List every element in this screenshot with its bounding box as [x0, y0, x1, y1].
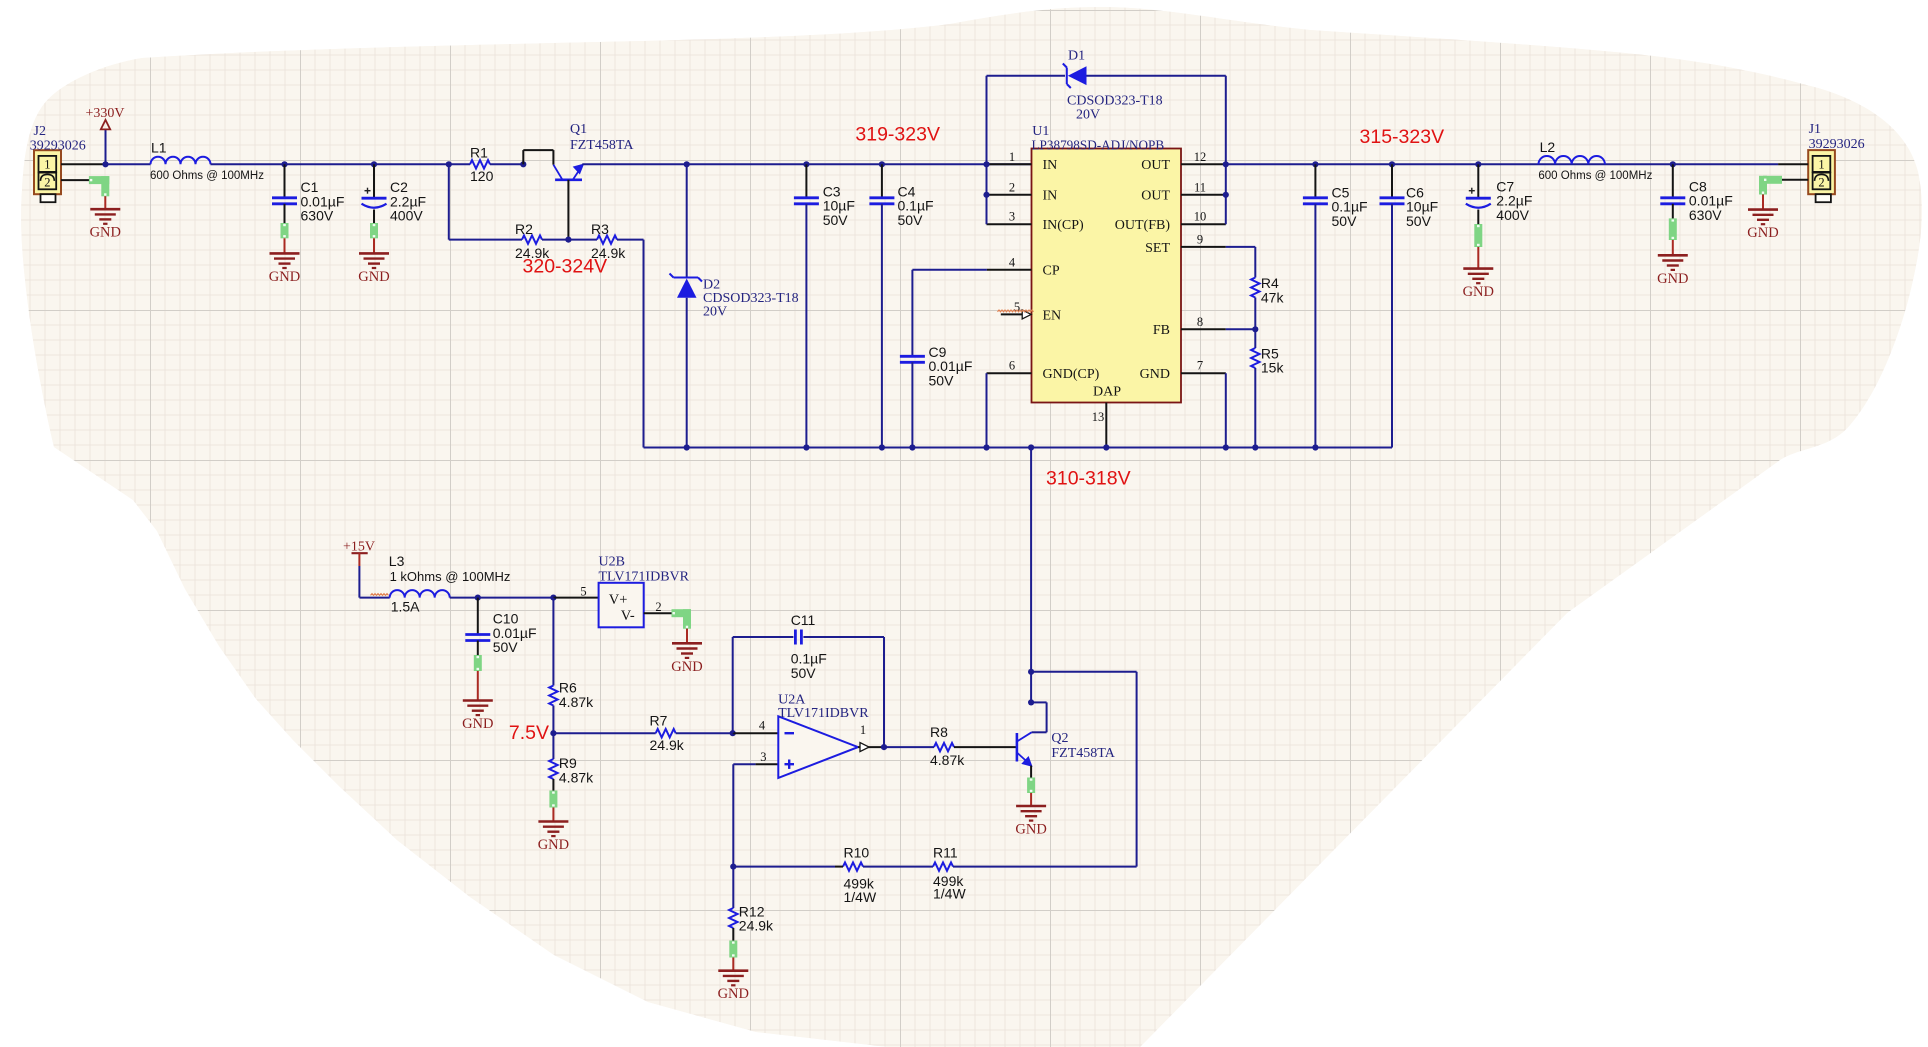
green highlight C2	[370, 223, 378, 238]
Q2 emitter wire	[1030, 766, 1032, 778]
svg-text:EN: EN	[1043, 308, 1062, 323]
svg-text:630V: 630V	[301, 208, 334, 224]
svg-text:15k: 15k	[1261, 360, 1285, 376]
svg-text:GND: GND	[671, 659, 702, 675]
ground symbol at U2B	[671, 643, 702, 675]
svg-text:1/4W: 1/4W	[933, 886, 966, 902]
junction Q2 collector	[1028, 699, 1034, 705]
svg-text:TLV171IDBVR: TLV171IDBVR	[778, 706, 869, 721]
green highlight C7	[1474, 224, 1482, 247]
svg-text:OUT: OUT	[1141, 189, 1170, 204]
inductor L2 600 Ohms @ 100MHz	[1538, 139, 1652, 182]
IC U1 LP38798SD-ADJ/NOPB	[1032, 124, 1182, 403]
U2A pin4 stub	[733, 732, 779, 734]
red stub U2B gnd	[686, 629, 688, 644]
wire rail Q1 emitter to U1	[582, 163, 1031, 165]
svg-text:LP38798SD-ADJ/NOPB: LP38798SD-ADJ/NOPB	[1032, 138, 1165, 153]
wire rail J2 to L1	[106, 163, 151, 165]
junction bus x=806.4	[803, 444, 809, 450]
resistor R8 4.87k	[930, 724, 965, 768]
svg-text:R9: R9	[559, 755, 577, 771]
svg-text:4: 4	[759, 719, 766, 733]
junction R6 col	[550, 595, 556, 601]
svg-text:V-: V-	[621, 608, 635, 624]
orange compile squiggle EN	[998, 310, 1034, 312]
U1 pin names	[1043, 158, 1171, 399]
svg-text:8: 8	[1197, 315, 1203, 329]
svg-text:FB: FB	[1153, 323, 1170, 338]
svg-text:20V: 20V	[1076, 107, 1100, 122]
svg-text:50V: 50V	[791, 665, 817, 681]
svg-text:GND(CP): GND(CP)	[1043, 367, 1100, 382]
junction bus x=1315.4	[1312, 444, 1318, 450]
transistor Q2 FZT458TA	[1017, 731, 1116, 766]
svg-text:R8: R8	[930, 724, 948, 740]
resistor R5 15k	[1254, 329, 1256, 348]
red stub R9	[552, 808, 554, 822]
svg-text:GND: GND	[462, 716, 493, 732]
svg-text:+15V: +15V	[343, 539, 375, 554]
wire rail L1 to R1	[211, 163, 471, 165]
op-amp power block U2B TLV171IDBVR	[580, 555, 689, 628]
connector J2 39293026	[30, 124, 86, 202]
resistor R3 24.9k	[591, 221, 626, 261]
red stub R12	[732, 958, 734, 971]
resistor R1 120	[470, 145, 494, 185]
svg-text:600 Ohms @ 100MHz: 600 Ohms @ 100MHz	[1538, 170, 1652, 182]
svg-text:J1: J1	[1809, 122, 1821, 137]
svg-text:3: 3	[760, 750, 766, 764]
wire bus down to Q2 node	[1030, 448, 1032, 703]
svg-text:47k: 47k	[1261, 289, 1285, 305]
svg-text:20V: 20V	[703, 305, 727, 320]
svg-text:10: 10	[1194, 210, 1207, 224]
wire R11 to right column	[953, 866, 1137, 868]
ground symbol at J1	[1747, 210, 1778, 242]
svg-text:GND: GND	[90, 225, 121, 241]
junction Q1 base / R2 / R3	[565, 237, 571, 243]
svg-text:Q2: Q2	[1051, 731, 1068, 746]
junction inverting input node	[730, 730, 736, 736]
svg-text:4.87k: 4.87k	[559, 694, 594, 710]
junction bus x=1225.8	[1223, 444, 1229, 450]
svg-text:R1: R1	[470, 145, 488, 161]
wire R3 to bus corner	[617, 239, 644, 241]
junction C1	[281, 161, 287, 167]
junction output node	[881, 744, 887, 750]
svg-text:320-324V: 320-324V	[523, 256, 608, 278]
wire step to Q1 collector	[522, 150, 524, 164]
svg-text:50V: 50V	[929, 372, 955, 388]
power port +15V	[343, 539, 375, 597]
svg-text:315-323V: 315-323V	[1360, 126, 1445, 148]
svg-text:GND: GND	[1657, 271, 1688, 287]
U1 EN pin stub with no-connect	[1001, 313, 1023, 315]
wire J2 pin1 to rail	[61, 163, 106, 165]
svg-text:600 Ohms @ 100MHz: 600 Ohms @ 100MHz	[150, 170, 264, 182]
U1 left pin stubs	[987, 163, 1032, 165]
junction bus x=686.7	[684, 444, 690, 450]
svg-text:24.9k: 24.9k	[650, 737, 685, 753]
wire R7 to inverting node	[676, 732, 733, 734]
ground symbol at Q2	[1015, 806, 1046, 838]
svg-text:39293026: 39293026	[1809, 137, 1865, 152]
svg-text:5: 5	[580, 585, 586, 599]
svg-text:2: 2	[655, 600, 661, 614]
orange compile squiggle L3	[371, 594, 389, 596]
svg-text:400V: 400V	[1496, 207, 1529, 223]
svg-text:GND: GND	[269, 269, 300, 285]
svg-text:1: 1	[1818, 157, 1824, 171]
svg-text:OUT(FB): OUT(FB)	[1115, 218, 1171, 233]
junction FB/R4/R5	[1252, 326, 1258, 332]
junction Q1 base	[520, 161, 526, 167]
U2B pin2 stub	[644, 612, 687, 614]
svg-text:11: 11	[1194, 180, 1206, 194]
op-amp U2A TLV171IDBVR	[778, 693, 869, 778]
junction bus x=1255.3	[1252, 444, 1258, 450]
U1 pin6 stub and wire to bus	[987, 372, 1032, 374]
U2A pin3 stub	[756, 763, 779, 765]
capacitor C7 2.2uF 400V (polarized)	[1475, 161, 1481, 167]
wire +15V corner to L3	[359, 597, 389, 599]
bottom floating bus wire	[644, 447, 1393, 449]
svg-text:L1: L1	[151, 140, 167, 156]
svg-text:7: 7	[1197, 359, 1203, 373]
capacitor C11 0.1uF 50V feedback	[733, 612, 884, 747]
green highlight J2 pin2 net	[89, 176, 109, 184]
svg-text:50V: 50V	[493, 639, 519, 655]
svg-text:FZT458TA: FZT458TA	[570, 138, 634, 153]
red stub C10	[477, 671, 479, 701]
ground symbol at J2	[90, 209, 121, 241]
svg-text:1: 1	[860, 723, 866, 737]
svg-text:319-323V: 319-323V	[855, 123, 940, 145]
U1 right vertical OUT bus	[1225, 76, 1227, 225]
junction feedback node	[730, 864, 736, 870]
wire R1 to Q1 base junction	[490, 163, 523, 165]
red stub C2	[373, 238, 375, 253]
resistor R6 4.87k	[552, 598, 554, 686]
svg-text:13: 13	[1092, 410, 1105, 424]
junction bus x=881.9	[879, 444, 885, 450]
green highlight C10	[474, 655, 482, 671]
capacitor C1 0.01uF 630V	[272, 164, 344, 223]
svg-text:U2B: U2B	[599, 555, 625, 570]
svg-text:+330V: +330V	[85, 106, 124, 121]
wire rail left col down to R2 row	[448, 164, 450, 239]
wire R2 to junction	[542, 239, 568, 241]
svg-text:50V: 50V	[1332, 213, 1358, 229]
wire junction to U2B pin5	[553, 597, 598, 599]
ground symbol at C1	[269, 253, 300, 285]
capacitor C2 2.2uF 400V (polarized)	[362, 164, 427, 223]
ground symbol at C2	[358, 253, 389, 285]
resistor R11 499k 1/4W	[933, 845, 966, 902]
junction 310-318V branch	[1028, 669, 1034, 675]
svg-text:R7: R7	[650, 713, 668, 729]
red stub C8	[1672, 240, 1674, 255]
Q2 collector step	[1032, 731, 1047, 733]
svg-text:GND: GND	[1747, 225, 1778, 241]
svg-text:24.9k: 24.9k	[739, 918, 774, 934]
junction bus x=986.5	[983, 444, 989, 450]
wire red stub to gnd J2	[104, 196, 106, 209]
svg-text:50V: 50V	[1406, 213, 1432, 229]
ground symbol at C10	[462, 701, 493, 733]
wire R8 to Q2 base	[954, 746, 1017, 748]
svg-text:4.87k: 4.87k	[559, 770, 594, 786]
transistor Q1 FZT458TA	[553, 122, 634, 180]
svg-text:R2: R2	[515, 221, 533, 237]
red stub C7	[1477, 247, 1479, 269]
svg-text:DAP: DAP	[1093, 385, 1121, 400]
svg-text:IN(CP): IN(CP)	[1043, 218, 1085, 233]
junction bus x=1031.1	[1028, 444, 1034, 450]
svg-text:V+: V+	[609, 592, 628, 608]
green highlight J1 pin2 net	[1763, 176, 1782, 184]
svg-text:R3: R3	[591, 221, 609, 237]
svg-text:SET: SET	[1145, 241, 1170, 256]
svg-text:CP: CP	[1043, 264, 1060, 279]
svg-text:CDSOD323-T18: CDSOD323-T18	[1067, 94, 1163, 109]
wire rail U1 OUT to J1	[1226, 163, 1778, 165]
U1 left vertical IN bus	[986, 76, 988, 225]
svg-text:9: 9	[1197, 232, 1203, 246]
svg-text:1/4W: 1/4W	[844, 889, 877, 905]
svg-text:OUT: OUT	[1141, 158, 1170, 173]
junction bus x=1106.3	[1103, 444, 1109, 450]
svg-text:2: 2	[1818, 175, 1824, 189]
junction C10	[475, 595, 481, 601]
power port +330V	[85, 106, 124, 164]
resistor R2 24.9k	[515, 221, 550, 261]
wire output to R8	[884, 746, 934, 748]
wire J2 pin2 to gnd corner	[61, 179, 105, 181]
svg-text:GND: GND	[358, 269, 389, 285]
svg-text:2: 2	[44, 175, 50, 189]
resistor R12 24.9k	[732, 867, 734, 908]
svg-text:630V: 630V	[1689, 207, 1722, 223]
capacitor C4 0.1uF 50V	[879, 161, 885, 167]
wire 7.5V node to R7	[553, 732, 655, 734]
resistor R4 47k	[1226, 246, 1256, 248]
capacitor C5 0.1uF 50V	[1312, 161, 1318, 167]
svg-text:R11: R11	[933, 845, 958, 861]
svg-text:L3: L3	[389, 553, 405, 569]
U1 GND pin7 wire to bus	[1225, 373, 1227, 447]
capacitor C6 10uF 50V	[1389, 161, 1395, 167]
svg-text:1 kOhms @ 100MHz: 1 kOhms @ 100MHz	[390, 569, 511, 584]
resistor R9 4.87k	[552, 733, 554, 759]
svg-text:1: 1	[44, 157, 50, 171]
wire L3 to C10 junction	[450, 597, 478, 599]
svg-text:IN: IN	[1043, 189, 1058, 204]
svg-text:6: 6	[1009, 359, 1015, 373]
U1 DAP pin13 stub	[1105, 403, 1107, 448]
ground symbol at R12	[718, 971, 749, 1003]
green highlight U2B pin2	[672, 609, 692, 617]
svg-text:GND: GND	[1463, 284, 1494, 300]
svg-text:GND: GND	[538, 837, 569, 853]
feedback row wire	[733, 866, 835, 868]
svg-text:IN: IN	[1043, 158, 1058, 173]
svg-text:FZT458TA: FZT458TA	[1051, 746, 1115, 761]
junction C2	[371, 161, 377, 167]
red stub Q2 gnd	[1030, 793, 1032, 806]
svg-text:1.5A: 1.5A	[391, 598, 420, 614]
svg-text:50V: 50V	[823, 212, 849, 228]
connector J1 39293026	[1808, 122, 1864, 202]
wire Q1 base down to R2/R3	[567, 180, 569, 240]
svg-text:400V: 400V	[390, 208, 423, 224]
green highlight Q2 emitter	[1027, 778, 1035, 794]
svg-text:2: 2	[1009, 180, 1015, 194]
svg-text:D1: D1	[1068, 49, 1085, 64]
U2A output pin1	[858, 746, 884, 748]
inductor L3 1 kOhms @ 100MHz 1.5A	[389, 553, 511, 614]
capacitor C9 0.01uF 50V	[900, 270, 987, 448]
resistor R7 24.9k	[650, 713, 685, 754]
TVS diode D2 CDSOD323-T18 20V	[684, 161, 690, 167]
svg-text:C11: C11	[791, 612, 816, 628]
svg-text:3: 3	[1009, 210, 1015, 224]
svg-text:1: 1	[1009, 150, 1015, 164]
svg-text:L2: L2	[1540, 139, 1556, 155]
capacitor C8 0.01uF 630V	[1670, 161, 1676, 167]
inductor L1 600 Ohms @ 100MHz	[150, 140, 264, 183]
svg-text:39293026: 39293026	[30, 139, 86, 154]
svg-text:7.5V: 7.5V	[509, 722, 549, 744]
svg-text:GND: GND	[1015, 822, 1046, 838]
svg-text:4: 4	[1009, 255, 1016, 269]
wire junction to R3	[568, 239, 597, 241]
svg-text:4.87k: 4.87k	[930, 752, 965, 768]
svg-text:50V: 50V	[898, 212, 924, 228]
TVS diode D1 CDSOD323-T18 20V	[987, 75, 1066, 77]
wire +input vertical	[732, 764, 734, 866]
junction 7.5V node	[550, 730, 556, 736]
green highlight R9	[549, 791, 557, 808]
ground symbol at C7	[1463, 269, 1494, 301]
svg-text:TLV171IDBVR: TLV171IDBVR	[599, 570, 690, 585]
capacitor C10 0.01uF 50V	[465, 598, 536, 656]
green highlight C1	[281, 223, 289, 238]
ground symbol at R9	[538, 822, 569, 854]
resistor R10 499k 1/4W	[843, 845, 877, 905]
green highlight C8	[1669, 218, 1677, 240]
U1 pin numbers	[1009, 150, 1206, 424]
wire branch to right column	[1031, 671, 1137, 673]
svg-text:12: 12	[1194, 150, 1207, 164]
junction bus x=912.4	[909, 444, 915, 450]
svg-text:R10: R10	[844, 845, 870, 861]
junction +330V/J2	[102, 161, 108, 167]
wire J1 pin2 to gnd corner	[1763, 179, 1808, 181]
wire junction to U2B junction	[478, 597, 554, 599]
svg-text:J2: J2	[34, 124, 46, 139]
svg-text:Q1: Q1	[570, 122, 587, 137]
junction R2 branch	[446, 161, 452, 167]
green highlight R12	[729, 941, 737, 958]
svg-text:310-318V: 310-318V	[1046, 468, 1131, 490]
svg-text:GND: GND	[1140, 367, 1170, 382]
U1 right pin stubs	[1181, 163, 1226, 165]
wire rail into J1 pin1	[1778, 163, 1808, 165]
red stub C1	[284, 238, 286, 253]
svg-text:GND: GND	[718, 986, 749, 1002]
svg-text:120: 120	[470, 168, 494, 184]
ground symbol at C8	[1657, 255, 1688, 286]
red stub J1 gnd	[1762, 195, 1764, 210]
capacitor C3 10uF 50V	[803, 161, 809, 167]
